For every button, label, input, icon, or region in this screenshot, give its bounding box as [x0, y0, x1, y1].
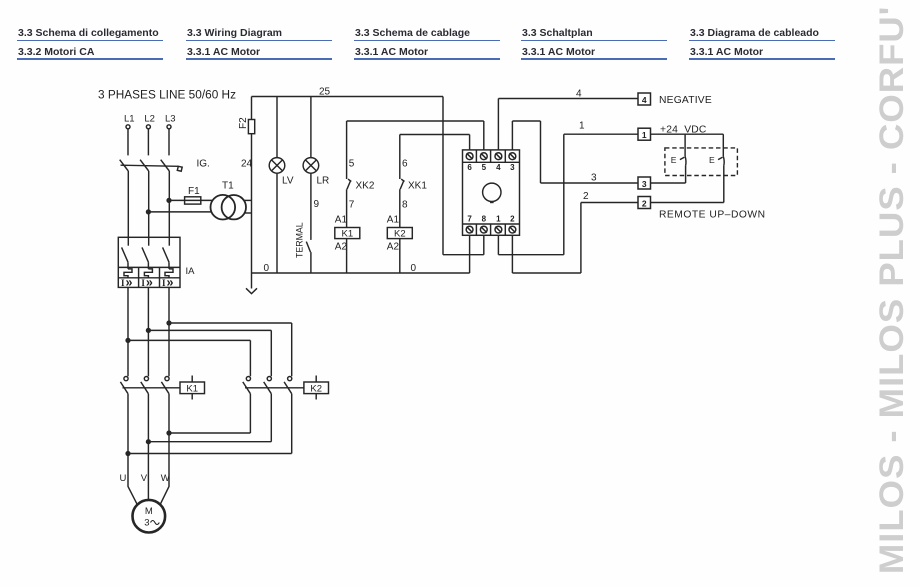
svg-text:TERMAL: TERMAL [295, 222, 305, 258]
svg-text:8: 8 [482, 214, 487, 223]
socket screw 6 [466, 153, 473, 160]
lamp LR [303, 158, 319, 174]
svg-text:I: I [141, 278, 145, 288]
wire V to motor [147, 394, 149, 500]
svg-text:NEGATIVE: NEGATIVE [659, 95, 712, 106]
wire XK2 to K1 coil [346, 189, 348, 227]
breaker IA pole 3 [163, 247, 173, 277]
svg-text:9: 9 [314, 199, 320, 210]
breaker IA pole 1 [122, 247, 132, 277]
terminal L2 [146, 125, 150, 129]
wire LV branch lower [276, 173, 278, 273]
svg-text:V: V [141, 473, 148, 484]
wire bus25 to terminal8 [443, 97, 484, 255]
wire L1 upper [127, 129, 129, 156]
svg-text:IA: IA [186, 266, 196, 277]
svg-text:7: 7 [467, 214, 472, 223]
wire L1 IA to K1 [127, 287, 129, 376]
lamp LV [269, 158, 285, 174]
terminal [2] [638, 197, 651, 209]
wire T1 lower feed [148, 211, 211, 213]
wire +24 bus [651, 133, 724, 135]
terminal [3] [638, 177, 651, 189]
svg-text:8: 8 [402, 199, 408, 210]
svg-text:5: 5 [482, 163, 487, 172]
wire W to motor [160, 394, 169, 505]
wire K1 coil to 0 bus [346, 239, 348, 273]
wire T1 secondary top stub [244, 199, 252, 201]
wire bus 25 [252, 96, 444, 98]
wire F2 branch vertical [251, 97, 253, 289]
terminal [4] [638, 93, 651, 105]
socket screw 7 [466, 226, 473, 233]
socket screw 5 [480, 153, 487, 160]
switch IG linkage bar [121, 165, 179, 166]
ground [246, 288, 257, 293]
breaker IA box [118, 237, 180, 287]
wire L1 to K2 pole1 top [128, 340, 250, 376]
wire XK1 upper [399, 135, 401, 180]
wire 0 bus [252, 272, 470, 274]
wire K2 pole1 to L3 [169, 432, 250, 434]
wire LV branch upper [276, 97, 278, 158]
wire L2 IA to K1 [147, 287, 149, 376]
relay socket U1 body [463, 150, 520, 235]
svg-text:4: 4 [642, 95, 647, 105]
transformer T1 [211, 195, 236, 220]
contactor K1 pole 1 [124, 377, 128, 381]
node junction L1/K2 bottom [126, 452, 130, 456]
svg-text:K2: K2 [394, 229, 406, 240]
wire L3 IA to K1 [168, 287, 170, 376]
contactor K1 linkage [123, 387, 181, 389]
wire L3 to K2 pole3 top [169, 323, 292, 376]
svg-text:»: » [126, 276, 133, 290]
svg-text:U: U [120, 473, 127, 484]
wire LR branch upper [310, 97, 312, 158]
svg-text:24: 24 [241, 158, 253, 169]
socket center boss [483, 183, 501, 201]
header links row 2 [18, 46, 94, 58]
svg-text:6: 6 [402, 159, 408, 170]
wire L3 upper [168, 129, 170, 156]
wire XK1 to K2 coil [399, 189, 401, 227]
svg-text:A2: A2 [335, 241, 348, 252]
switch IG pole 1 blade [120, 160, 129, 171]
svg-text:LR: LR [317, 175, 330, 186]
switch TERMAL blade [306, 242, 310, 253]
svg-text:4: 4 [496, 163, 501, 172]
svg-text:3: 3 [591, 172, 597, 183]
contactor K1 pole 3 [165, 377, 169, 381]
node junction L3/F1 [167, 199, 171, 203]
svg-text:1: 1 [496, 214, 501, 223]
svg-text:A1: A1 [335, 215, 348, 226]
svg-text:I: I [162, 278, 166, 288]
watermark [875, 0, 909, 587]
svg-text:LV: LV [282, 175, 294, 186]
svg-text:L1: L1 [124, 113, 135, 124]
wire K2 pole2 bottom [270, 394, 272, 442]
svg-text:K2: K2 [310, 383, 322, 394]
wire L2 upper [147, 129, 149, 156]
svg-text:XK1: XK1 [408, 180, 427, 191]
svg-text:0: 0 [411, 263, 417, 274]
switch IG pole 3 blade [161, 160, 170, 171]
svg-text:5: 5 [349, 159, 355, 170]
svg-text:3 PHASES LINE 50/60 Hz: 3 PHASES LINE 50/60 Hz [98, 89, 236, 101]
node junction L3/K2 bottom [167, 431, 171, 435]
wire thermal to 0 bus [310, 252, 312, 273]
wire T1 secondary bottom stub [245, 212, 251, 214]
svg-text:F1: F1 [188, 186, 200, 197]
svg-text:1: 1 [579, 120, 585, 131]
fuse F1 [185, 197, 201, 204]
svg-text:2: 2 [642, 199, 647, 209]
svg-text:25: 25 [319, 87, 331, 98]
svg-text:2: 2 [510, 214, 515, 223]
breaker IA magnetic symbols [121, 276, 174, 290]
wire E1 to terminal [3] [651, 166, 686, 183]
terminal L3 [167, 125, 171, 129]
contactor K1 pole 2 [144, 377, 148, 381]
wire terminal5 to XK2 [347, 121, 484, 150]
svg-text:A1: A1 [387, 215, 400, 226]
wire socket3 to terminal [3] [512, 121, 638, 183]
svg-text:E: E [671, 155, 677, 165]
wire K2 coil to 0 bus [399, 239, 401, 273]
fuse F2 [248, 120, 254, 134]
wire socket2 to terminal [2] [512, 203, 638, 274]
connector XK1 [400, 179, 404, 189]
svg-text:A2: A2 [387, 241, 400, 252]
svg-text:7: 7 [349, 199, 355, 210]
wire K2 pole3 to L1 [128, 453, 292, 455]
terminal [1] [638, 128, 651, 140]
svg-text:E: E [709, 155, 715, 165]
svg-text:3: 3 [144, 517, 149, 528]
wire terminal6 to XK1 [400, 135, 470, 151]
switch IG handle loop [177, 166, 182, 171]
svg-text:6: 6 [467, 163, 472, 172]
svg-text:2: 2 [583, 191, 589, 202]
svg-text:F2: F2 [238, 117, 249, 129]
contactor K2 pole 1 [246, 377, 250, 381]
socket screw 2 [509, 226, 516, 233]
contactor K2 pole 2 [267, 377, 271, 381]
svg-text:I: I [121, 278, 125, 288]
terminal L1 [126, 125, 130, 129]
motor M1 [133, 500, 166, 533]
wire L1 to IA [127, 171, 129, 246]
svg-text:L2: L2 [144, 113, 155, 124]
wire U to motor [128, 394, 137, 505]
node junction L2/T1 [147, 210, 151, 214]
wire L2 to IA [148, 171, 150, 246]
svg-text:0: 0 [264, 263, 270, 274]
node junction L2/K2 bottom [147, 440, 151, 444]
coil K2 [387, 228, 412, 239]
svg-text:3: 3 [642, 179, 647, 189]
node junction L2/K2 top [147, 329, 151, 333]
svg-text:XK2: XK2 [356, 180, 375, 191]
switch IG pole 2 blade [140, 160, 149, 171]
svg-text:L3: L3 [165, 113, 176, 124]
svg-text:M: M [145, 506, 153, 517]
socket screw 8 [480, 226, 487, 233]
svg-text:1: 1 [642, 130, 647, 140]
wire E1 drop [684, 134, 686, 156]
svg-text:K1: K1 [186, 383, 198, 394]
wire socket1 to terminal [1] [498, 134, 638, 255]
node junction L1/K2 top [126, 339, 130, 343]
socket screw 4 [495, 153, 502, 160]
svg-text:4: 4 [576, 88, 582, 99]
remote box (dashed) [665, 148, 738, 176]
svg-text:»: » [146, 276, 153, 290]
svg-text:REMOTE UP–DOWN: REMOTE UP–DOWN [659, 209, 766, 220]
wire E2 to terminal [2] [651, 166, 724, 203]
svg-text:3: 3 [510, 163, 515, 172]
socket screw 1 [495, 226, 502, 233]
contactor K1 box [180, 382, 205, 394]
svg-text:»: » [167, 276, 174, 290]
socket screw 3 [509, 153, 516, 160]
connector XK2 [347, 179, 351, 189]
wire F1 feed [169, 199, 213, 201]
wire K2 pole2 to L2 [148, 441, 271, 443]
header links row 1 [18, 27, 159, 39]
wire socket4 to terminal [4] [498, 99, 638, 151]
contactor K2 box [304, 382, 329, 394]
wire terminal7 to 0 bus [469, 235, 471, 273]
wire K2 pole3 bottom [291, 394, 293, 454]
svg-text:IG.: IG. [197, 158, 210, 169]
wire K2 pole1 bottom [249, 394, 251, 433]
svg-text:T1: T1 [222, 181, 234, 192]
breaker IA pole 2 [142, 247, 152, 277]
wire L2 to K2 pole2 top [148, 330, 271, 376]
contactor K2 pole 3 [288, 377, 292, 381]
contactor K2 linkage [245, 387, 304, 389]
node junction L3/K2 top [167, 321, 171, 325]
wire XK2 upper [346, 121, 348, 179]
wire LR to thermal switch [310, 173, 312, 240]
wire L3 to IA [168, 171, 170, 246]
coil K1 [335, 228, 360, 239]
svg-text:K1: K1 [341, 229, 353, 240]
wire E2 drop [722, 134, 724, 156]
